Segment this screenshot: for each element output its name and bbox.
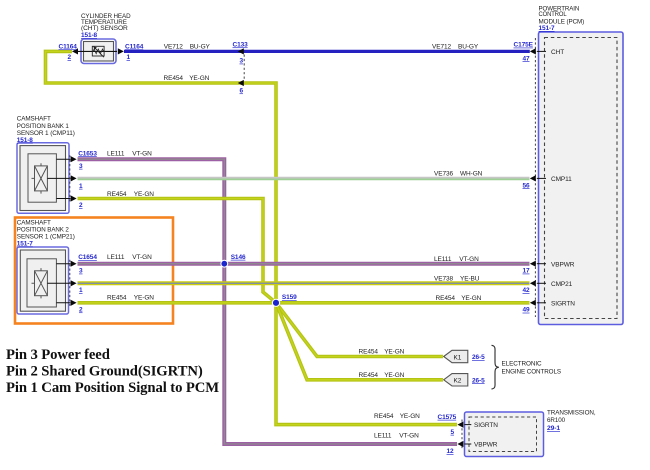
transmission pin 5 SIGRTN connector C1575: [438, 414, 499, 436]
svg-text:151-8: 151-8: [81, 32, 97, 39]
inline connector C133 pin 6: [238, 80, 244, 95]
splice S146: [221, 254, 246, 267]
connector C1653 pin 2: [71, 195, 83, 209]
wire VE736 WH-GN: CMP11 pin1 to PCM pin56: [78, 178, 530, 179]
connector C1654 pin 2: [71, 300, 83, 314]
wire VE712 BU-GY: CHT pin1 to PCM pin47: [124, 50, 530, 53]
svg-text:C1164: C1164: [125, 43, 144, 50]
svg-text:2: 2: [68, 54, 72, 61]
relay terminal K2: [444, 374, 485, 386]
wire LE111 VT-GN: CMP11 pin3 down through S146 to transmission VBPWR: [78, 159, 458, 444]
svg-text:VE712BU-GY: VE712BU-GY: [164, 44, 211, 51]
svg-text:29-1: 29-1: [547, 425, 560, 432]
svg-text:LE111VT-GN: LE111VT-GN: [374, 433, 419, 440]
svg-text:5: 5: [451, 429, 455, 436]
svg-text:POSITION BANK 1: POSITION BANK 1: [17, 123, 69, 130]
svg-text:Pin 1 Cam Position Signal to P: Pin 1 Cam Position Signal to PCM: [6, 380, 219, 396]
transmission pin 12 VBPWR: [447, 441, 498, 455]
svg-text:VBPWR: VBPWR: [474, 442, 498, 449]
svg-text:RE454YE-GN: RE454YE-GN: [359, 349, 405, 356]
CMP21 sensor title: [17, 220, 75, 248]
svg-text:CMP21: CMP21: [551, 281, 573, 288]
svg-text:49: 49: [523, 307, 531, 314]
svg-text:LE111VT-GN: LE111VT-GN: [107, 150, 152, 157]
svg-text:2: 2: [79, 202, 83, 209]
svg-text:SIGRTN: SIGRTN: [551, 300, 575, 307]
svg-text:12: 12: [447, 448, 455, 455]
svg-text:3: 3: [79, 163, 83, 170]
svg-text:ELECTRONIC: ELECTRONIC: [502, 361, 542, 368]
PCM pin 56 CMP11: [523, 175, 573, 189]
wire RE454 YE-GN: CMP21 pin2 through S159 to PCM pin49: [78, 301, 530, 305]
camshaft position sensor symbol (CMP11): [28, 154, 70, 202]
connector C1653 pin 1: [71, 175, 83, 190]
PCM pin 47 CHT: [514, 42, 565, 63]
relay terminal K1: [444, 350, 485, 362]
svg-text:S146: S146: [231, 254, 246, 261]
svg-text:CAMSHAFT: CAMSHAFT: [17, 116, 51, 123]
connector C1654 pin 3: [71, 254, 98, 274]
PCM module box: [539, 32, 624, 325]
svg-text:SENSOR 1 (CMP21): SENSOR 1 (CMP21): [17, 234, 75, 241]
svg-text:6R100: 6R100: [547, 417, 565, 424]
svg-text:26-5: 26-5: [472, 377, 485, 384]
svg-text:(CHT) SENSOR: (CHT) SENSOR: [81, 25, 128, 32]
wire LE111 VT-GN: CMP21 pin3 through S146 to PCM pin17: [78, 262, 530, 266]
connector C1654 dashed link: [69, 260, 71, 307]
wire RE454 YE-GN: CMP11 pin2 down to S159: [78, 199, 277, 303]
svg-text:Pin 2 Shared Ground(SIGRTN): Pin 2 Shared Ground(SIGRTN): [6, 363, 203, 379]
connector C1654 pin 1: [71, 280, 83, 294]
svg-text:C175E: C175E: [514, 42, 534, 49]
connector C1164 pin 1 (CHT right): [118, 43, 144, 61]
PCM pin 49 SIGRTN: [523, 300, 576, 314]
label electronic engine controls: [502, 361, 562, 376]
connector C133 dashed link: [243, 55, 245, 80]
svg-text:RE454YE-GN: RE454YE-GN: [359, 372, 405, 379]
connector C1653 dashed link: [69, 155, 71, 202]
inline connector C133 pin 3: [233, 41, 249, 64]
PCM pin 42 CMP21: [523, 280, 573, 294]
wire RE454 YE-GN: S159 to relay K1: [276, 303, 443, 357]
svg-text:C133: C133: [233, 41, 249, 48]
svg-text:6: 6: [240, 87, 244, 94]
svg-text:RE454YE-GN: RE454YE-GN: [436, 295, 482, 302]
svg-text:42: 42: [523, 287, 531, 294]
svg-text:Pin 3 Power feed: Pin 3 Power feed: [6, 347, 110, 363]
svg-text:SIGRTN: SIGRTN: [474, 422, 498, 429]
svg-text:1: 1: [79, 287, 83, 294]
transmission module box: [465, 412, 544, 457]
svg-text:1: 1: [79, 183, 83, 190]
svg-text:56: 56: [523, 182, 531, 189]
svg-text:TRANSMISSION,: TRANSMISSION,: [547, 409, 596, 416]
svg-text:151-7: 151-7: [17, 241, 33, 248]
CHT sensor body: [81, 39, 116, 64]
svg-text:1: 1: [127, 54, 131, 61]
svg-text:151-8: 151-8: [17, 137, 33, 144]
svg-text:S159: S159: [282, 294, 297, 301]
highlight box around CMP21 sensor: [15, 218, 173, 324]
wire RE454 YE-GN: S159 to relay K2: [276, 303, 443, 380]
connector C175E dashed line: [534, 38, 536, 317]
svg-text:CHT: CHT: [551, 49, 564, 56]
connector C1164 pin 2 (CHT left): [59, 43, 79, 61]
splice S159: [272, 294, 297, 306]
svg-text:RE454YE-GN: RE454YE-GN: [107, 295, 154, 302]
svg-text:C1164: C1164: [59, 43, 78, 50]
svg-text:VBPWR: VBPWR: [551, 261, 575, 268]
svg-text:CAMSHAFT: CAMSHAFT: [17, 220, 51, 227]
svg-text:SENSOR 1 (CMP11): SENSOR 1 (CMP11): [17, 130, 75, 137]
svg-text:RE454YE-GN: RE454YE-GN: [164, 75, 210, 82]
svg-text:VE736WH-GN: VE736WH-GN: [434, 171, 483, 178]
PCM title: [539, 5, 585, 32]
svg-text:C1575: C1575: [438, 414, 457, 421]
svg-text:C1653: C1653: [78, 150, 97, 157]
svg-text:47: 47: [523, 55, 531, 62]
CMP11 sensor title: [17, 116, 75, 144]
svg-text:CMP11: CMP11: [551, 176, 572, 183]
svg-text:K1: K1: [454, 354, 462, 361]
svg-text:151-7: 151-7: [539, 25, 555, 32]
svg-text:CONTROL: CONTROL: [539, 11, 567, 18]
svg-text:3: 3: [240, 58, 244, 65]
PCM pin 17 VBPWR: [523, 261, 575, 275]
transmission title: [547, 409, 596, 432]
svg-text:K2: K2: [454, 378, 462, 385]
svg-text:RE454YE-GN: RE454YE-GN: [374, 413, 420, 420]
connector C1653 pin 3: [71, 150, 98, 170]
svg-text:3: 3: [79, 268, 83, 275]
brace electronic engine controls: [492, 345, 499, 389]
svg-text:VE712BU-GY: VE712BU-GY: [432, 44, 479, 51]
wire RE454 YE-GN: CHT pin2 down through S159 to transmission SIGRTN: [46, 51, 458, 424]
svg-text:LE111VT-GN: LE111VT-GN: [107, 254, 152, 261]
camshaft position sensor CMP21 body: [17, 247, 69, 314]
camshaft position sensor symbol (CMP21): [27, 259, 70, 307]
thermistor symbol (CHT): [78, 46, 117, 57]
svg-text:2: 2: [79, 306, 83, 313]
CHT sensor title: [81, 13, 131, 39]
svg-text:ENGINE CONTROLS: ENGINE CONTROLS: [502, 369, 562, 376]
svg-text:17: 17: [523, 268, 531, 275]
svg-text:26-5: 26-5: [472, 354, 485, 361]
connector C1575 dashed line: [461, 420, 463, 449]
camshaft position sensor CMP11 body: [17, 143, 69, 214]
wire VE738 YE-BU: CMP21 pin1 to PCM pin42: [78, 281, 530, 285]
svg-text:C1654: C1654: [78, 254, 97, 261]
